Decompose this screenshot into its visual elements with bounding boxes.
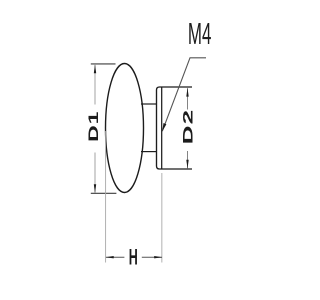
svg-text:D1: D1 (86, 111, 101, 142)
svg-text:H: H (129, 245, 138, 270)
svg-text:D2: D2 (180, 109, 195, 145)
svg-text:M4: M4 (188, 16, 212, 51)
